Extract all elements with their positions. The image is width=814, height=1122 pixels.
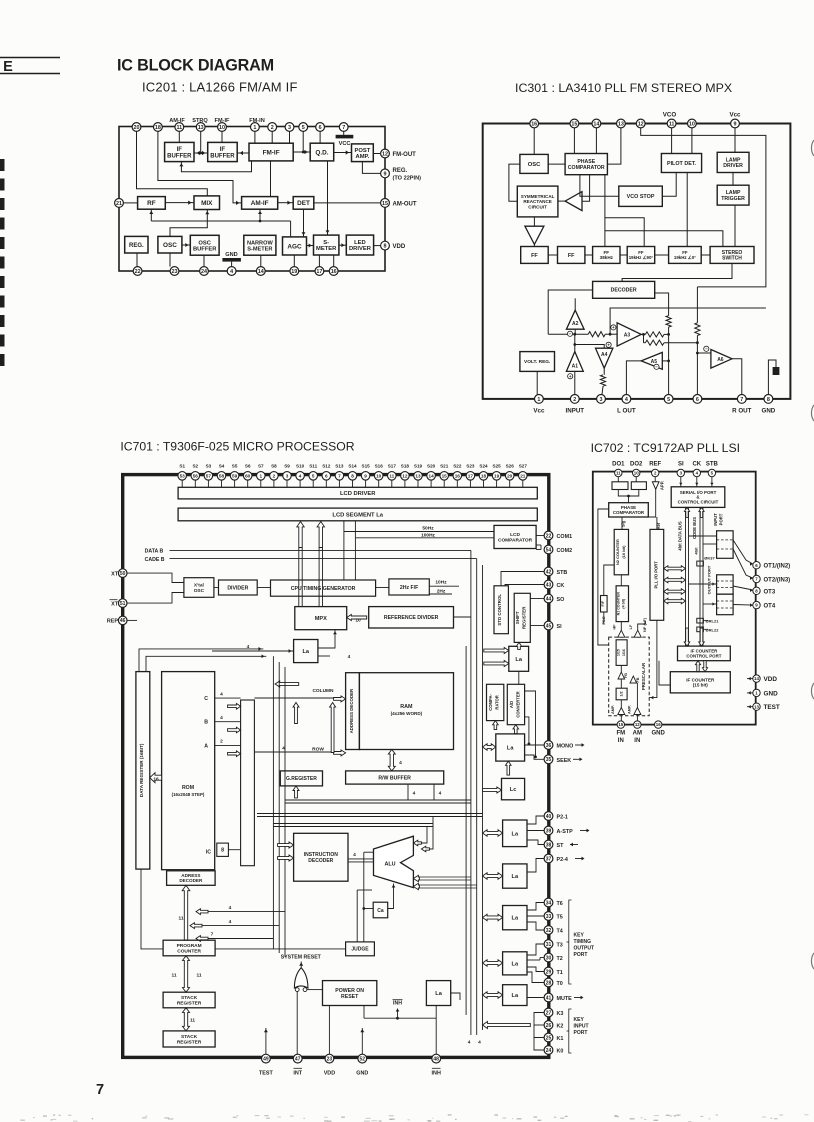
- IC701 pin 24 K0: [544, 1046, 553, 1055]
- svg-text:SWITCH: SWITCH: [722, 255, 742, 261]
- IC701 La latch mono: [496, 734, 525, 761]
- svg-text:STACK: STACK: [181, 995, 198, 1001]
- svg-text:4: 4: [229, 905, 232, 911]
- svg-text:AMP.: AMP.: [356, 154, 370, 160]
- IC701 PROGRAM COUNTER block: [163, 940, 215, 956]
- svg-text:11: 11: [190, 1018, 195, 1024]
- svg-text:TEST: TEST: [259, 1071, 273, 1077]
- svg-text:50Hz: 50Hz: [422, 526, 434, 532]
- svg-text:DET: DET: [297, 200, 310, 207]
- wire DET bottom to AGC top: [303, 209, 305, 237]
- wire La mono to pins: [525, 744, 545, 746]
- wire pin to LCD DRIVER: [325, 480, 327, 488]
- svg-text:29: 29: [546, 969, 552, 975]
- wire 50Hz line: [343, 521, 345, 532]
- svg-text:OT4: OT4: [764, 604, 776, 610]
- wire REFERENCE DIVIDER right: [454, 616, 471, 618]
- svg-text:2Hz: 2Hz: [437, 588, 446, 594]
- svg-text:15: 15: [442, 473, 448, 478]
- wire SI: [530, 625, 544, 627]
- svg-text:S7: S7: [258, 463, 264, 468]
- svg-text:DECODER: DECODER: [179, 878, 203, 883]
- svg-text:+: +: [612, 325, 615, 330]
- IC701 INSTRUCTION DECODER block: [294, 833, 348, 881]
- IC701 DIVIDER block: [219, 580, 258, 595]
- wires K pins to bus: [534, 1013, 544, 1026]
- wire LED DRIVER to pin8: [374, 245, 381, 247]
- svg-text:LCD SEGMENT La: LCD SEGMENT La: [332, 513, 383, 519]
- IC702 outline: [593, 472, 756, 725]
- wire AD output to MONO line: [525, 717, 529, 744]
- svg-text:P2-4: P2-4: [557, 857, 568, 863]
- IC301 pin 1: [535, 395, 544, 404]
- svg-text:GND: GND: [356, 1071, 368, 1077]
- IC301 PHASE COMPARATOR block: [565, 154, 607, 175]
- svg-text:4: 4: [348, 654, 351, 660]
- svg-text:RAM: RAM: [400, 704, 413, 710]
- IC201 pin 23: [170, 267, 179, 276]
- svg-text:APP.: APP.: [660, 481, 665, 490]
- svg-text:T3: T3: [557, 943, 563, 949]
- svg-text:7: 7: [338, 473, 341, 478]
- IC702 input port box: [717, 531, 734, 559]
- AMP triangle FM: [618, 708, 625, 715]
- svg-text:N2 COUNTER: N2 COUNTER: [615, 539, 620, 565]
- IC301 pin 13: [617, 119, 626, 128]
- wire pin51 to Xtal OSC: [127, 593, 184, 604]
- svg-text:A: A: [204, 743, 208, 749]
- left edge dashed registration bar: [0, 159, 5, 366]
- IC701 pin 58: [217, 472, 226, 481]
- svg-text:SO: SO: [557, 597, 565, 603]
- IC701 pin 28 T0: [544, 978, 553, 987]
- wire FF up: [604, 565, 614, 596]
- svg-text:T6: T6: [557, 901, 563, 907]
- IC301 STEREO SWITCH block: [710, 247, 754, 264]
- scan noise bottom edge: [264, 1115, 268, 1116]
- wire INH line: [364, 1017, 436, 1019]
- IC201 pin 10: [218, 123, 227, 132]
- IC301 FF1: [521, 247, 549, 264]
- open arrow into ALU lower right 2: [419, 884, 477, 886]
- IC701 La latch MUTE: [503, 985, 527, 1006]
- wire FM-IF to Q.D. arrow: [293, 151, 310, 153]
- svg-text:IC201 : LA1266 FM/AM IF: IC201 : LA1266 FM/AM IF: [142, 80, 298, 95]
- IC702 pin 7 OT2: [753, 575, 760, 582]
- wire IF counter left: [659, 661, 670, 685]
- wire Ref vertical: [648, 489, 655, 517]
- wire SYMMETRICAL to down triangle: [533, 217, 535, 226]
- svg-text:S10: S10: [296, 463, 305, 468]
- svg-text:+: +: [607, 343, 610, 348]
- svg-text:LCD: LCD: [510, 532, 520, 538]
- svg-text:Ca: Ca: [377, 908, 384, 914]
- svg-text:S4: S4: [219, 463, 225, 468]
- IC702 IF COUNTER block: [670, 672, 730, 693]
- IC702 N2 COUNTER block: [614, 529, 628, 574]
- svg-text:5: 5: [667, 397, 670, 403]
- IC701 pin 49 TEST: [262, 1054, 271, 1063]
- IC701 pin 9: [361, 472, 370, 481]
- IC701 pin 6: [322, 472, 331, 481]
- svg-text:A3: A3: [624, 333, 631, 339]
- IC701 pin 56: [191, 472, 200, 481]
- svg-text:T5: T5: [557, 915, 563, 921]
- wire pin to LCD DRIVER: [443, 480, 445, 488]
- svg-text:4bit DATA BUS: 4bit DATA BUS: [678, 521, 683, 551]
- IC701 pin 21: [519, 472, 528, 481]
- IC201 AGC block: [283, 237, 307, 255]
- IC201 pin 11: [175, 123, 184, 132]
- wire pin13 to PHASE COMPARATOR right: [607, 128, 621, 164]
- svg-text:4: 4: [478, 1040, 481, 1046]
- wire LCD COMPARATOR to COM1: [536, 535, 544, 537]
- wire A6 output to pin7: [732, 359, 742, 395]
- open arrow into COMPARATOR bottom: [493, 721, 499, 730]
- wire A3 node up to right feed: [610, 308, 766, 334]
- svg-text:11: 11: [669, 121, 675, 127]
- svg-text:CONTROL PORT: CONTROL PORT: [686, 653, 721, 658]
- svg-text:14: 14: [593, 121, 599, 127]
- svg-text:4: 4: [230, 269, 233, 275]
- svg-text:T0: T0: [557, 981, 563, 987]
- open arrow 10 into MPX: [347, 615, 367, 621]
- IC701 pin 26 K2: [544, 1021, 553, 1030]
- double arrow into La mono: [483, 744, 496, 751]
- svg-text:AM: AM: [633, 731, 642, 737]
- wire GND bar to pin4: [231, 262, 233, 267]
- svg-text:HF: HF: [613, 624, 617, 630]
- wire AM path: [636, 683, 638, 708]
- IC701 POWER ON RESET block: [323, 981, 377, 1006]
- svg-text:S20: S20: [427, 463, 436, 468]
- IC201 POST AMP block: [352, 144, 374, 162]
- svg-text:(4 bit): (4 bit): [622, 598, 626, 609]
- svg-text:33: 33: [546, 914, 552, 920]
- wire DO2 pin to box: [635, 477, 637, 482]
- wire OSC to PHASE COMPARATOR: [548, 163, 565, 165]
- IC701 2Hz F/F block: [389, 579, 429, 595]
- svg-text:VDD: VDD: [764, 676, 778, 683]
- IC701 STACK REGISTER 2 block: [163, 1031, 215, 1047]
- svg-text:A1: A1: [572, 363, 579, 369]
- svg-text:La: La: [512, 993, 519, 999]
- svg-text:15: 15: [571, 121, 577, 127]
- wire CK to serial port: [696, 477, 698, 487]
- IC301 VCO STOP block: [619, 186, 663, 206]
- IC701 ALU block: [374, 836, 414, 887]
- IC702 APP triangle: [652, 482, 659, 490]
- binder arc 1: [811, 140, 814, 156]
- open arrows G.REGISTER up: [293, 703, 299, 724]
- IC702 PLL I/O PORT block: [650, 529, 664, 620]
- IC201 NARROW S-METER block: [244, 235, 276, 255]
- IC301 pin 9: [731, 119, 740, 128]
- svg-text:DO2: DO2: [630, 462, 643, 468]
- IC701 outline: [123, 475, 549, 1058]
- IC201 LED DRIVER block: [346, 235, 373, 255]
- open arrows PLL port to data bus: [664, 566, 686, 572]
- svg-text:XT: XT: [111, 601, 119, 607]
- svg-text:57: 57: [206, 473, 212, 478]
- svg-text:COMPARATOR: COMPARATOR: [568, 165, 605, 171]
- IC701 CPU TIMING GENERATOR block: [271, 580, 376, 596]
- wire pin1 to FM-IF: [254, 131, 256, 143]
- svg-text:21: 21: [520, 473, 526, 478]
- IC701 8 box: [217, 843, 229, 856]
- IC701 pin 19: [492, 472, 501, 481]
- resistor R between node and A3: [588, 332, 605, 337]
- wire DATA REGISTER top lines: [139, 649, 263, 672]
- svg-text:X'tal: X'tal: [194, 583, 204, 589]
- open arrows buses into IF counter control port: [684, 628, 690, 646]
- wires output port feeds: [689, 583, 717, 585]
- svg-text:GND: GND: [764, 690, 779, 697]
- svg-text:T2: T2: [557, 956, 563, 962]
- svg-text:La: La: [512, 874, 519, 880]
- IC201 IF BUFFER 2: [208, 142, 238, 161]
- svg-text:13: 13: [618, 121, 624, 127]
- svg-text:AM-IF: AM-IF: [251, 200, 269, 207]
- IC702 pin 10: [633, 469, 640, 476]
- svg-text:15: 15: [382, 201, 388, 207]
- IC701 LCD SEGMENT bar: [178, 508, 537, 521]
- svg-text:T4: T4: [557, 929, 563, 935]
- horizontal bus pair 2: [257, 813, 483, 815]
- IC702 pin 3: [677, 469, 684, 476]
- IC201 pin 1: [251, 123, 260, 132]
- svg-text:10: 10: [689, 121, 695, 127]
- svg-text:JUDGE: JUDGE: [351, 947, 369, 953]
- wire pin50 to Xtal OSC: [127, 573, 184, 582]
- wire FF4-FF5: [655, 254, 669, 256]
- svg-text:35: 35: [546, 757, 552, 763]
- svg-text:GND: GND: [652, 731, 666, 737]
- svg-text:−: −: [705, 347, 708, 352]
- wire DECODER left loop to A2 input node: [548, 290, 592, 334]
- IC702 pin 14 VDD: [753, 675, 760, 682]
- IC701 pin 35 SEEK: [544, 755, 553, 764]
- IC702 F/F block: [601, 596, 608, 613]
- wire LF up: [638, 620, 645, 630]
- svg-text:16: 16: [656, 722, 661, 727]
- svg-text:S12: S12: [322, 463, 331, 468]
- wire pin to LCD DRIVER: [273, 480, 275, 488]
- svg-text:Lc: Lc: [510, 787, 517, 793]
- svg-text:COM2: COM2: [557, 548, 573, 554]
- svg-text:PORT: PORT: [574, 952, 588, 958]
- svg-text:ØRL21: ØRL21: [706, 619, 720, 624]
- svg-text:30: 30: [546, 955, 552, 961]
- wire OSC to OSC BUFFER arrow: [182, 244, 190, 246]
- svg-text:IC702 : TC9172AP PLL LSI: IC702 : TC9172AP PLL LSI: [591, 441, 740, 455]
- svg-text:12: 12: [402, 473, 408, 478]
- PC feed line 1: [208, 911, 285, 913]
- wire NARROW S-METER to pin14: [260, 255, 262, 266]
- wire A5 input from pin5 line: [662, 360, 668, 362]
- svg-text:DIVIDER: DIVIDER: [227, 585, 248, 591]
- page tab rule bottom: [0, 73, 60, 75]
- IC201 pin 20: [132, 123, 141, 132]
- wire SI to serial port: [680, 477, 682, 487]
- wire PLL port bottom into prescalar: [649, 620, 657, 697]
- svg-text:La: La: [512, 831, 519, 837]
- svg-text:8: 8: [384, 244, 387, 250]
- svg-text:14: 14: [754, 676, 759, 681]
- svg-text:45: 45: [546, 623, 552, 629]
- IC701 ADDRESS DECODER block: [346, 673, 360, 750]
- wire Q.D. bottom to S-METER top: [327, 161, 329, 235]
- IC701 pin 3: [283, 472, 292, 481]
- svg-text:23: 23: [327, 1056, 333, 1062]
- KEY TIMING OUTPUT PORT bracket: [569, 900, 572, 984]
- svg-text:B: B: [204, 720, 208, 726]
- svg-text:13: 13: [415, 473, 421, 478]
- svg-text:19: 19: [494, 473, 500, 478]
- wire Ca to ALU: [388, 884, 394, 909]
- wire pin6 to Q.D.: [319, 131, 321, 143]
- IC701 pin 22 COM1: [544, 531, 553, 540]
- IC701 G.REGISTER block: [280, 771, 322, 786]
- wire FF2-FF3: [585, 254, 593, 256]
- wire A1 to pin2: [574, 371, 576, 394]
- svg-text:STD CONTROL: STD CONTROL: [497, 594, 502, 626]
- IC701 pin 38 ST: [544, 840, 553, 849]
- svg-text:S9: S9: [284, 463, 290, 468]
- IC701 pin 34 T6: [544, 898, 553, 907]
- IC201 pin 13: [196, 123, 205, 132]
- wire pin to LCD DRIVER: [509, 480, 511, 488]
- IC701 La latch T30: [503, 952, 527, 975]
- IC301 amp A3: [617, 323, 641, 346]
- IC201 pin 9: [381, 169, 390, 178]
- wire pin23 VDD to POR: [328, 1006, 330, 1056]
- svg-text:(10 bit): (10 bit): [621, 545, 626, 559]
- svg-text:REGISTER: REGISTER: [177, 1000, 202, 1006]
- svg-text:K0: K0: [557, 1049, 564, 1055]
- IC701 pin 23 VDD: [325, 1054, 334, 1063]
- IC702 driver box DO2: [631, 482, 646, 490]
- wire FM-IF AGC to IF BUFFER1: [181, 161, 251, 172]
- wire pin10 to PILOT DET: [691, 128, 693, 154]
- wires R/W BUFFER down: [407, 784, 409, 800]
- wire input port to OT1: [733, 540, 753, 564]
- svg-text:INPUT: INPUT: [574, 1024, 589, 1030]
- svg-text:ST: ST: [557, 843, 565, 849]
- IC701 pin 11: [388, 472, 397, 481]
- svg-text:ØK37: ØK37: [704, 555, 715, 560]
- svg-text:S5: S5: [232, 463, 238, 468]
- A2 inverting input symbol: [567, 331, 572, 336]
- double arrow into La MUTE: [483, 992, 503, 999]
- IC301 amp A6: [711, 350, 732, 369]
- svg-text:11: 11: [389, 473, 394, 478]
- wires La T30 to pins: [527, 944, 544, 955]
- open arrow K input: [483, 1022, 531, 1029]
- svg-text:IC301 : LA3410 PLL FM STER: IC301 : LA3410 PLL FM STEREO MPX: [515, 81, 732, 95]
- wire HF up to N1: [620, 622, 622, 631]
- wire STB to serial port: [711, 477, 713, 487]
- wire B row: [215, 721, 241, 723]
- svg-text:DRIVER: DRIVER: [349, 246, 372, 252]
- svg-text:14: 14: [258, 269, 264, 275]
- svg-text:ROM: ROM: [182, 785, 194, 791]
- svg-text:(4x256 WORD): (4x256 WORD): [391, 711, 423, 716]
- IC701 pin 37 P2-4: [544, 854, 553, 863]
- IC702 divider 15/16 box: [616, 640, 627, 666]
- IC201 pin 22: [133, 267, 142, 276]
- svg-text:7: 7: [96, 1082, 104, 1098]
- wire LAMP DRIVER to LAMP TRIGGER: [732, 173, 734, 186]
- svg-text:16: 16: [153, 776, 159, 782]
- svg-text:IF COUNTER: IF COUNTER: [686, 677, 715, 682]
- wire pin to LCD DRIVER: [469, 480, 471, 488]
- IC201 IF BUFFER 1: [165, 142, 194, 161]
- wire CADE B bus: [170, 558, 477, 560]
- svg-text:4: 4: [220, 691, 223, 697]
- svg-text:18: 18: [155, 125, 161, 131]
- svg-text:19kHz ∠90°: 19kHz ∠90°: [629, 255, 654, 260]
- wire divider to FB tri: [620, 665, 622, 672]
- wire pin21 to RF: [123, 202, 137, 204]
- IC701 pin 45 SI: [544, 621, 553, 630]
- IC701 pin 53: [178, 472, 187, 481]
- IC702 SERIAL I/O PORT CONTROL CIRCUIT block: [671, 487, 725, 508]
- wire AD output to SEEK line: [525, 691, 536, 757]
- svg-text:58: 58: [219, 473, 225, 478]
- double arrow STACK-STACK: [183, 1008, 190, 1031]
- svg-text:4: 4: [439, 791, 442, 797]
- wire A4 top to A1 node: [575, 345, 604, 349]
- wire pin to LCD DRIVER: [404, 480, 406, 488]
- wire pin46 REP stub: [127, 619, 137, 621]
- svg-text:COMPA-: COMPA-: [488, 693, 493, 710]
- svg-text:−: −: [655, 365, 658, 370]
- IC201 VCC bar: [336, 135, 354, 139]
- wire A4 to resistor: [603, 368, 605, 375]
- svg-text:18: 18: [481, 473, 487, 478]
- svg-text:6: 6: [325, 473, 328, 478]
- IC301 LAMP DRIVER block: [717, 152, 749, 172]
- IC702 pin 8 OT3: [753, 587, 760, 594]
- svg-text:2: 2: [220, 739, 223, 745]
- wire RL22 line: [703, 628, 708, 630]
- svg-text:−: −: [569, 332, 572, 337]
- svg-text:S24: S24: [479, 463, 488, 468]
- svg-text:S1: S1: [179, 463, 185, 468]
- svg-text:REGISTER: REGISTER: [177, 1039, 202, 1045]
- IC701 La latch T656: [503, 906, 527, 930]
- svg-text:CADE B: CADE B: [145, 557, 165, 563]
- IC701 LCD DRIVER bar: [178, 487, 537, 499]
- IC701 pin 33 T5: [544, 912, 553, 921]
- IC701 Ca box: [373, 902, 388, 918]
- svg-text:K2: K2: [557, 1024, 564, 1030]
- AGC feedback bus: [151, 220, 290, 222]
- svg-text:DATA B: DATA B: [145, 548, 164, 554]
- double arrows IF CCP to IF COUNTER: [695, 661, 700, 672]
- wire LCD COMPARATOR to COM2: [536, 549, 541, 551]
- double arrow into La T30: [483, 960, 503, 967]
- HF LF triangles: [618, 630, 625, 637]
- IC702 N1 COUNTER block: [616, 586, 628, 622]
- svg-text:VDD: VDD: [393, 244, 406, 250]
- svg-text:A2: A2: [572, 321, 579, 327]
- wire pin to LCD DRIVER: [207, 480, 209, 488]
- svg-text:7: 7: [211, 932, 214, 938]
- wire pin3 to FM-IF: [289, 131, 291, 143]
- svg-text:13: 13: [198, 125, 204, 131]
